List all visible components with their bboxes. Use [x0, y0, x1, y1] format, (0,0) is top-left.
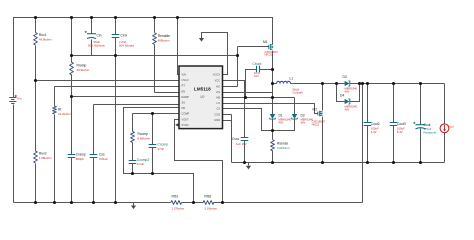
svg-text:VIN: VIN — [182, 73, 186, 77]
svg-text:Cin: Cin — [97, 33, 102, 37]
svg-text:NKCS: NKCS — [312, 122, 320, 126]
svg-text:CSG: CSG — [214, 112, 220, 116]
svg-text:2.2nF: 2.2nF — [137, 162, 145, 166]
svg-text:Cramp: Cramp — [76, 153, 86, 157]
svg-text:0.01uF: 0.01uF — [99, 157, 108, 161]
svg-text:M1: M1 — [263, 40, 268, 44]
svg-text:16V: 16V — [254, 74, 259, 78]
svg-text:Ccomp2: Ccomp2 — [137, 158, 149, 162]
svg-text:8.66kohm: 8.66kohm — [138, 136, 151, 140]
svg-text:Renable: Renable — [158, 34, 170, 38]
svg-text:U?: U? — [200, 95, 204, 99]
svg-text:0.015ohm: 0.015ohm — [277, 146, 290, 150]
svg-text:NKCS: NKCS — [265, 53, 273, 57]
svg-text:D3: D3 — [343, 75, 347, 79]
svg-text:3.16kohm: 3.16kohm — [204, 207, 217, 211]
svg-text:Iout: Iout — [449, 125, 454, 129]
svg-text:HS: HS — [216, 90, 220, 94]
svg-text:Css: Css — [99, 153, 105, 157]
svg-text:1.07kohm: 1.07kohm — [172, 207, 185, 211]
svg-text:Rcomp: Rcomp — [138, 132, 149, 136]
svg-text:LM5118: LM5118 — [194, 86, 211, 91]
svg-text:49.9kohm: 49.9kohm — [77, 68, 90, 72]
svg-text:Ruv1: Ruv1 — [39, 33, 47, 37]
svg-text:Coilcraft: Coilcraft — [293, 91, 303, 95]
svg-text:HB: HB — [216, 96, 220, 100]
svg-text:820pF: 820pF — [76, 157, 84, 161]
svg-text:Cboot: Cboot — [253, 62, 262, 66]
svg-text:Rramp: Rramp — [77, 63, 87, 67]
svg-text:Ccomp: Ccomp — [158, 142, 169, 146]
svg-text:6.3V: 6.3V — [397, 130, 403, 134]
svg-text:LO: LO — [217, 101, 220, 105]
svg-text:50V Murata: 50V Murata — [119, 44, 134, 48]
svg-text:SYNC: SYNC — [182, 123, 189, 127]
svg-text:D1: D1 — [279, 113, 283, 117]
svg-text:D4: D4 — [340, 94, 344, 98]
svg-text:SS: SS — [182, 101, 186, 105]
svg-text:Rsense: Rsense — [277, 141, 288, 145]
svg-text:Rfb1: Rfb1 — [172, 194, 179, 198]
svg-text:49.9kohm: 49.9kohm — [39, 38, 52, 42]
svg-text:VCCX: VCCX — [213, 73, 220, 77]
svg-text:GND: GND — [214, 118, 220, 122]
svg-text:M2: M2 — [313, 107, 318, 111]
svg-text:L1: L1 — [290, 76, 294, 80]
svg-text:1uF 16V: 1uF 16V — [236, 142, 247, 146]
svg-text:40V: 40V — [279, 120, 284, 124]
svg-text:499kohm: 499kohm — [158, 39, 170, 43]
svg-text:RT: RT — [182, 84, 186, 88]
svg-text:Rfb2: Rfb2 — [204, 194, 211, 198]
svg-text:RAMP: RAMP — [182, 95, 190, 99]
svg-text:D2: D2 — [301, 113, 305, 117]
svg-text:Vin: Vin — [17, 97, 22, 101]
svg-text:27nF: 27nF — [158, 147, 165, 151]
svg-text:6.3V: 6.3V — [371, 130, 377, 134]
svg-text:COMP: COMP — [182, 112, 190, 116]
svg-text:Cinx: Cinx — [121, 33, 128, 37]
svg-text:40V: 40V — [345, 90, 350, 94]
svg-text:Panasonic: Panasonic — [424, 131, 438, 135]
svg-text:HO: HO — [216, 84, 220, 88]
svg-text:1.05kohm: 1.05kohm — [39, 156, 52, 160]
svg-text:UVLO: UVLO — [182, 78, 189, 82]
svg-text:CS: CS — [216, 107, 220, 111]
svg-text:VCC: VCC — [215, 78, 221, 82]
svg-text:EN: EN — [182, 89, 186, 93]
svg-text:FB: FB — [182, 106, 186, 110]
svg-text:VOUT: VOUT — [182, 117, 190, 121]
svg-text:50V Nichicon: 50V Nichicon — [88, 44, 105, 48]
svg-text:41.2kohm: 41.2kohm — [58, 112, 71, 116]
svg-text:40V: 40V — [345, 107, 350, 111]
svg-text:Cvcc: Cvcc — [232, 137, 240, 141]
svg-text:40V: 40V — [301, 120, 306, 124]
svg-text:Ruv2: Ruv2 — [39, 152, 47, 156]
